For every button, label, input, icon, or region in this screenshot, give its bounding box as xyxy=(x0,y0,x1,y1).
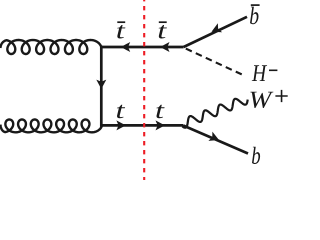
label t (bottom left) xyxy=(117,105,125,119)
red dashed cut line xyxy=(143,0,145,180)
label tbar (left): overbar xyxy=(117,21,125,23)
label H of H- xyxy=(252,65,267,81)
label tbar (right): overbar xyxy=(159,21,167,23)
label bbar: b xyxy=(250,7,259,25)
dashed charged-Higgs line xyxy=(186,49,244,76)
label tbar (right): t xyxy=(159,25,167,39)
label b (bottom) xyxy=(252,147,260,164)
arrow on t line, right of cut (points right) xyxy=(156,120,165,130)
arrow on tbar line, right of cut (points left) xyxy=(160,42,169,52)
wire: vertical top-quark propagator xyxy=(100,46,103,127)
gluon g2 (bottom incoming gluon) xyxy=(0,120,101,133)
wire: outgoing bbar quark xyxy=(184,17,247,47)
wire: top tbar propagator xyxy=(101,46,183,49)
label t (bottom right) xyxy=(156,105,164,119)
arrow on tbar line, left of cut (points left) xyxy=(121,42,130,52)
wire: bottom t propagator xyxy=(101,124,183,127)
label tbar (left): t xyxy=(117,25,125,39)
label superscript minus of H- xyxy=(269,69,277,71)
label superscript plus of W+ xyxy=(275,90,287,102)
label bbar: overbar xyxy=(251,4,260,6)
wavy W boson line xyxy=(182,99,247,128)
wire: outgoing b quark xyxy=(183,125,248,153)
arrow on t line, left of cut (points right) xyxy=(116,120,125,130)
arrow on vertical propagator (points down) xyxy=(96,80,106,89)
label W of W+ xyxy=(250,92,273,108)
arrow on b line (points away from vertex) xyxy=(208,132,219,141)
gluon g1 (top incoming gluon) xyxy=(0,40,101,54)
arrow on bbar line (points toward vertex) xyxy=(212,23,223,32)
